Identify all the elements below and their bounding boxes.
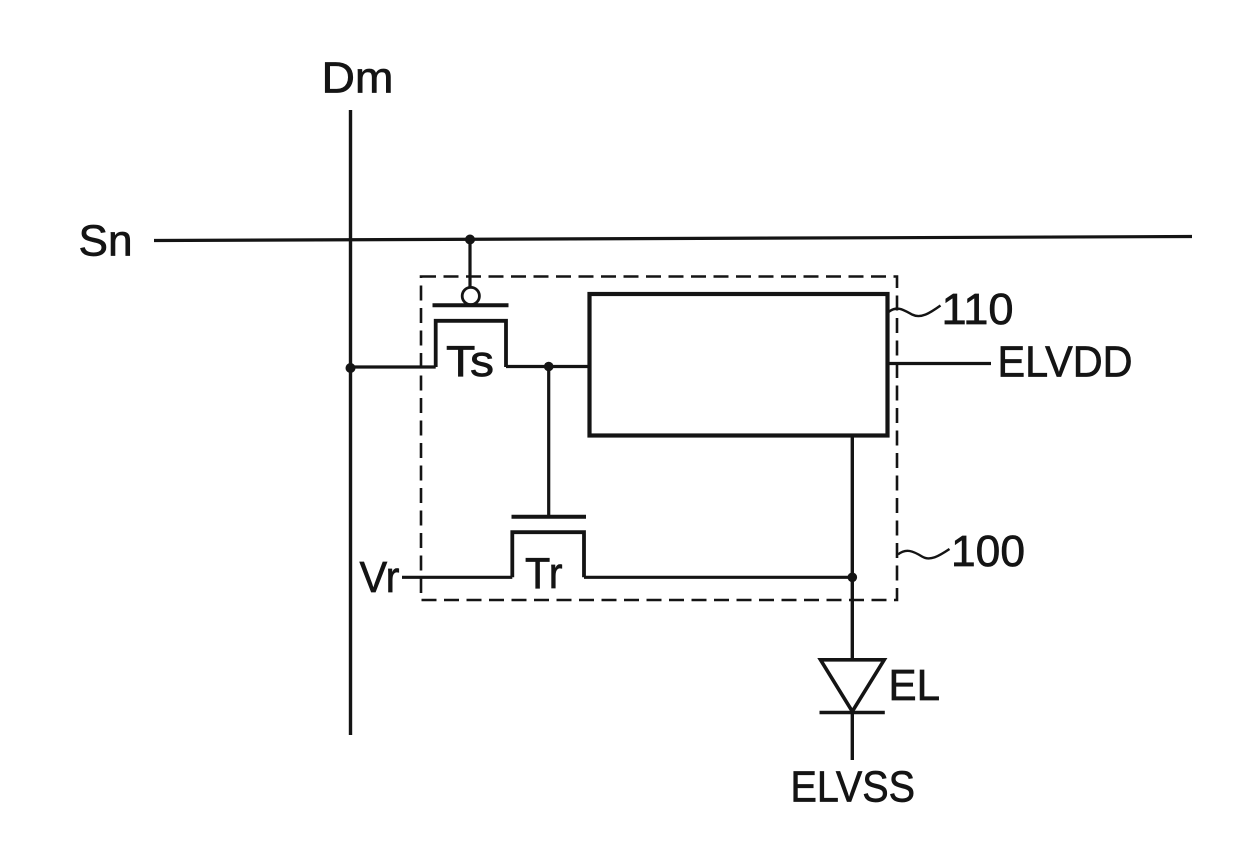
wire Dm to Ts source bbox=[351, 365, 436, 368]
svg-text:110: 110 bbox=[942, 285, 1014, 334]
junction dot node A (Ts drain / Tr gate) bbox=[544, 362, 554, 372]
junction dot on Dm bbox=[346, 363, 356, 373]
wire data line Dm (vertical) bbox=[349, 110, 352, 735]
wire block to ELVDD bbox=[888, 362, 992, 365]
transistor Tr gate bar bbox=[512, 515, 587, 519]
transistor Ts (PMOS gate bubble) bbox=[462, 287, 479, 304]
wire node A down to Tr gate bbox=[547, 367, 550, 516]
wire block bottom down to EL anode bbox=[851, 436, 854, 661]
wire EL cathode to ELVSS bbox=[851, 713, 854, 761]
junction dot on Sn at gate tap bbox=[465, 235, 475, 245]
svg-text:ELVDD: ELVDD bbox=[998, 338, 1133, 387]
driver block 110 bbox=[590, 294, 888, 436]
leader squiggle for 100 bbox=[898, 549, 950, 558]
svg-text:EL: EL bbox=[889, 661, 941, 710]
transistor Ts channel bbox=[436, 321, 506, 367]
svg-text:Tr: Tr bbox=[525, 549, 563, 598]
svg-text:Dm: Dm bbox=[322, 54, 394, 103]
diode EL anode triangle bbox=[821, 660, 885, 712]
wire Tr drain to EL node bbox=[584, 576, 852, 579]
svg-text:Sn: Sn bbox=[79, 217, 133, 266]
junction dot Tr drain / EL node bbox=[848, 573, 858, 583]
wire Sn tap down to Ts gate bbox=[468, 240, 471, 288]
leader squiggle for 110 bbox=[889, 306, 941, 317]
svg-text:ELVSS: ELVSS bbox=[791, 763, 916, 812]
wire Vr to Tr source bbox=[402, 576, 512, 579]
wire scan line Sn (horizontal) bbox=[154, 237, 1192, 241]
svg-text:Ts: Ts bbox=[446, 337, 494, 386]
transistor Ts gate bar bbox=[433, 303, 509, 307]
pixel boundary dashed box 100 bbox=[421, 277, 897, 601]
svg-text:Vr: Vr bbox=[360, 553, 400, 602]
diode EL cathode bar bbox=[820, 711, 885, 715]
svg-text:100: 100 bbox=[951, 527, 1025, 576]
wire Ts drain to block bbox=[506, 365, 590, 368]
transistor Tr channel bbox=[512, 532, 584, 577]
